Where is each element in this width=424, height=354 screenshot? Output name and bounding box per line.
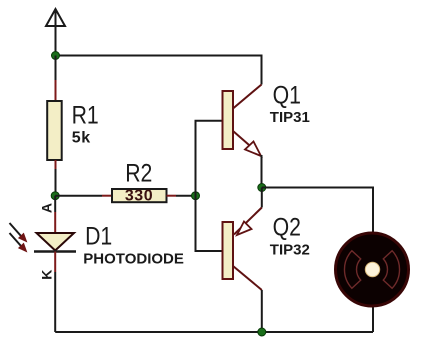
node D1/R2 junction <box>51 192 59 200</box>
light arrow 1 <box>10 223 27 242</box>
wire bottom rail <box>55 331 373 333</box>
resistor R1 pin bottom <box>55 160 57 169</box>
wire motor bottom <box>372 305 374 332</box>
wire Q1 emitter <box>261 155 263 188</box>
wire D1 bottom <box>54 272 56 332</box>
resistor R1 <box>47 101 62 160</box>
svg-text:TIP31: TIP31 <box>270 109 310 126</box>
motor M1 <box>336 233 409 306</box>
wire R2 right <box>176 195 196 197</box>
resistor R2 <box>112 189 167 202</box>
wire R1 bottom <box>55 169 57 196</box>
svg-text:R2: R2 <box>125 159 152 187</box>
light arrow 2 <box>10 233 27 252</box>
svg-text:Q2: Q2 <box>273 213 301 241</box>
svg-text:K: K <box>39 270 55 280</box>
diode D1 pin cathode <box>54 252 56 273</box>
svg-text:TIP32: TIP32 <box>270 241 310 258</box>
wire motor top <box>262 188 373 235</box>
wire Q2 collector <box>261 290 263 332</box>
node bottom junction <box>258 328 266 336</box>
svg-text:R1: R1 <box>72 101 99 129</box>
transistor Q2 <box>223 208 262 291</box>
power symbol <box>46 9 65 56</box>
transistor Q1 <box>223 85 262 157</box>
resistor R2 pin right <box>167 195 177 197</box>
wire Q2 emitter <box>261 188 263 208</box>
wire R1 top <box>55 56 57 81</box>
svg-text:5k: 5k <box>72 129 91 146</box>
wire R2 left <box>55 195 102 197</box>
node A junction <box>52 52 60 60</box>
photodiode D1 <box>34 233 76 252</box>
wire anode <box>54 196 56 212</box>
node emitter junction <box>258 184 266 192</box>
svg-text:330: 330 <box>125 188 153 205</box>
svg-text:D1: D1 <box>85 222 112 250</box>
resistor R1 pin top <box>55 80 57 101</box>
svg-text:PHOTODIODE: PHOTODIODE <box>83 250 184 267</box>
svg-text:Q1: Q1 <box>273 81 301 109</box>
wire base bus <box>196 121 223 251</box>
diode D1 pin anode <box>54 212 56 233</box>
resistor R2 pin left <box>102 195 112 197</box>
svg-text:A: A <box>39 203 55 213</box>
wire top rail <box>56 56 262 85</box>
node base junction <box>192 192 200 200</box>
